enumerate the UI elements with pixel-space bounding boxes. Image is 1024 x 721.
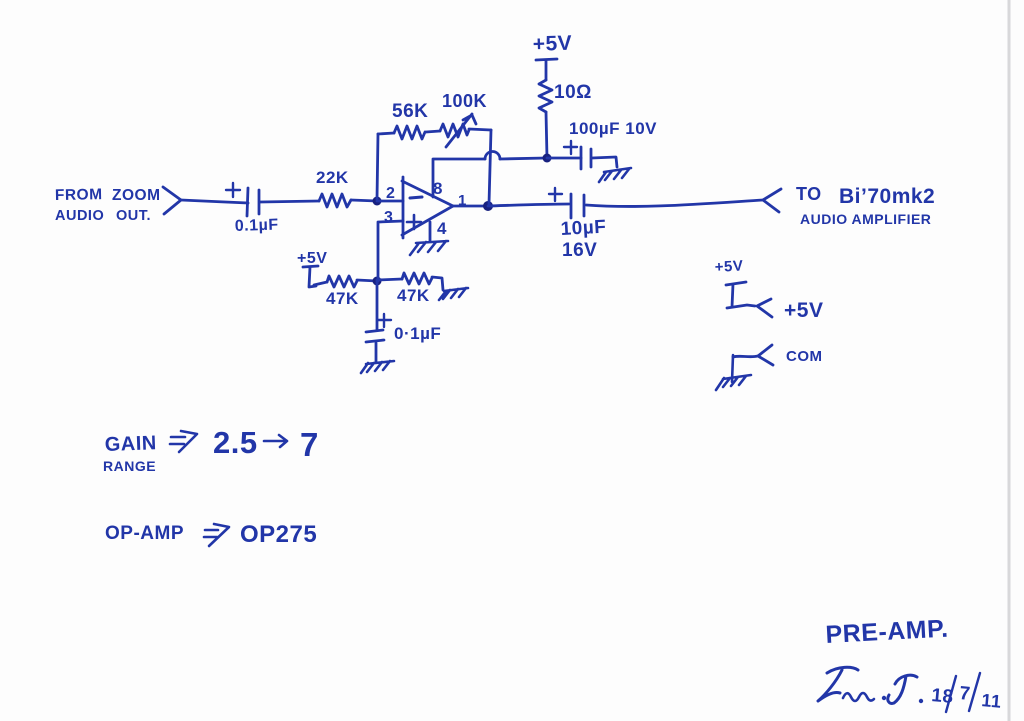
node OUT label "TO Bi70mk2 AUDIO AMPLIFIER" xyxy=(796,184,935,227)
svg-text:2: 2 xyxy=(386,185,395,202)
svg-text:Bi’70mk2: Bi’70mk2 xyxy=(839,185,935,208)
svg-text:0.1µF: 0.1µF xyxy=(235,216,279,235)
COM header chevron xyxy=(758,345,773,365)
value label 0.1uF (C1) xyxy=(235,216,279,235)
capacitor C4 polarity plus xyxy=(378,314,391,327)
svg-text:2.5: 2.5 xyxy=(213,425,258,460)
wire R1 to node A xyxy=(351,200,377,201)
resistor R3 56K xyxy=(394,126,425,139)
value label 47K (R5) xyxy=(397,286,430,305)
value label 47K (R4) xyxy=(326,289,359,308)
op-amp U1 triangle xyxy=(402,177,453,238)
input connector J1 chevron xyxy=(163,187,181,214)
wire node D to R5 xyxy=(377,279,402,280)
svg-text:OP275: OP275 xyxy=(240,521,317,548)
node C junction xyxy=(543,154,552,163)
wire pin 8 to +5V rail xyxy=(433,159,485,197)
pin number 1 xyxy=(458,192,467,209)
date slashes xyxy=(946,673,980,712)
net label +5V (bias) xyxy=(297,250,327,267)
wire feedback top left xyxy=(378,133,394,134)
title PRE-AMP xyxy=(825,615,949,649)
ground G2 (C2) xyxy=(599,168,631,182)
svg-text:TO: TO xyxy=(796,184,822,204)
svg-text:4: 4 xyxy=(437,219,447,238)
signature dot 2 xyxy=(919,699,923,703)
potentiometer VR1 100K body xyxy=(440,124,469,137)
value label 0.1uF (C4) xyxy=(394,324,441,343)
wire pin 4 to ground xyxy=(429,222,432,241)
wire input to C1 xyxy=(181,200,248,203)
resistor R1 22K xyxy=(319,194,351,207)
svg-text:OUT.: OUT. xyxy=(116,208,151,224)
resistor R2 10R xyxy=(539,80,552,112)
value label 10 ohm (R2) xyxy=(554,82,592,103)
capacitor C2 plates xyxy=(581,147,591,169)
wire hop to node C xyxy=(500,158,546,159)
implies arrow (gain) xyxy=(170,431,197,452)
+5V bias terminal bar xyxy=(303,266,318,287)
svg-text:PRE-AMP.: PRE-AMP. xyxy=(825,615,949,649)
capacitor C2 polarity plus xyxy=(564,141,577,154)
+5V header chevron xyxy=(757,299,772,317)
svg-text:0·1µF: 0·1µF xyxy=(394,324,441,343)
wire node A to pin 2 xyxy=(377,200,403,203)
signature J xyxy=(888,675,917,703)
signature flourish I xyxy=(827,667,858,673)
value label 100K (VR1) xyxy=(442,91,487,111)
wire R4 to node D xyxy=(357,280,377,281)
svg-text:+5V: +5V xyxy=(532,32,572,56)
svg-text:3: 3 xyxy=(384,209,393,226)
svg-text:+5V: +5V xyxy=(297,250,327,267)
pin number 3 xyxy=(384,209,393,226)
svg-text:47K: 47K xyxy=(397,286,430,305)
capacitor C3 plates xyxy=(571,194,584,218)
node IN label "FROM ZOOM AUDIO OUT." xyxy=(55,186,161,224)
svg-text:56K: 56K xyxy=(392,101,428,122)
+5V header terminal bar xyxy=(726,282,755,308)
wire node B to C3 xyxy=(488,204,569,206)
wire R5 to ground xyxy=(432,277,443,290)
note text GAIN RANGE xyxy=(103,425,319,474)
date 18/7/11 xyxy=(931,683,1003,712)
svg-text:7: 7 xyxy=(959,683,972,705)
wire feedback down to node B xyxy=(489,130,491,204)
svg-text:47K: 47K xyxy=(326,289,359,308)
svg-text:ZOOM: ZOOM xyxy=(112,187,161,204)
svg-text:100µF 10V: 100µF 10V xyxy=(569,119,657,138)
svg-text:AUDIO AMPLIFIER: AUDIO AMPLIFIER xyxy=(800,211,931,227)
svg-text:COM: COM xyxy=(786,348,823,365)
implies arrow (op-amp) xyxy=(204,524,229,546)
pin number 4 xyxy=(437,219,447,238)
svg-text:10µF: 10µF xyxy=(560,217,607,240)
svg-text:22K: 22K xyxy=(316,168,349,187)
wire R2 to node C xyxy=(546,112,547,158)
value label 10uF (C3) xyxy=(560,217,607,240)
wire hop over feedback xyxy=(485,152,500,160)
svg-text:+5V: +5V xyxy=(714,258,743,276)
svg-text:10Ω: 10Ω xyxy=(554,82,592,103)
net label COM xyxy=(786,348,823,365)
ground G4 (C4) xyxy=(361,361,394,373)
op-amp U1 inverting input minus xyxy=(410,197,422,198)
ground G3 (R5) xyxy=(439,288,468,300)
net label +5V (header) xyxy=(784,299,823,322)
wire C2 to ground xyxy=(592,157,617,167)
wire node A up to feedback xyxy=(377,134,378,199)
net label +5V (rail) xyxy=(532,32,572,56)
value label 56K (R3) xyxy=(392,101,428,122)
wire VR1 to feedback corner xyxy=(469,129,491,130)
resistor R4 47K xyxy=(327,276,357,287)
wire bias terminal to R4 xyxy=(314,282,327,285)
node D junction xyxy=(373,277,382,286)
+5V rail terminal bar xyxy=(536,59,557,80)
output connector J2 chevron xyxy=(763,189,781,212)
capacitor C1 plates xyxy=(247,188,259,216)
svg-text:AUDIO: AUDIO xyxy=(55,208,104,224)
value label 16V (C3) xyxy=(562,240,597,261)
wire pin 3 down to node D xyxy=(378,221,403,281)
pin number 8 xyxy=(433,179,443,198)
value label 22K (R1) xyxy=(316,168,349,187)
svg-text:GAIN: GAIN xyxy=(104,432,157,456)
wire node D down to C4 xyxy=(376,281,379,330)
svg-text:+5V: +5V xyxy=(784,299,823,322)
capacitor C4 plates xyxy=(366,330,384,342)
svg-text:8: 8 xyxy=(433,179,443,198)
capacitor C3 polarity plus xyxy=(549,188,562,201)
node A junction xyxy=(373,197,382,206)
pin number 2 xyxy=(386,185,395,202)
wire R3 to VR1 xyxy=(426,131,440,132)
value label 100uF 10V (C2) xyxy=(569,119,657,138)
potentiometer VR1 wiper arrow xyxy=(446,114,476,147)
svg-text:FROM: FROM xyxy=(55,186,103,204)
wire pin 1 to node B xyxy=(453,205,488,208)
svg-text:7: 7 xyxy=(300,426,319,463)
wire C4 to ground xyxy=(375,343,378,362)
net label +5V (header small) xyxy=(714,258,743,276)
signature an wave xyxy=(843,693,874,701)
signature dot xyxy=(882,696,886,700)
svg-text:16V: 16V xyxy=(562,240,597,261)
svg-text:11: 11 xyxy=(981,690,1003,712)
wire COM chevron to ground xyxy=(733,356,758,357)
wire C3 to output connector xyxy=(586,200,763,206)
ground G1 (op-amp pin 4) xyxy=(410,241,448,255)
capacitor C1 polarity plus xyxy=(226,183,240,197)
ground G5 (COM) xyxy=(716,355,751,390)
node B junction xyxy=(483,201,493,211)
svg-text:RANGE: RANGE xyxy=(103,458,156,474)
wire C1 to R1 xyxy=(260,201,319,202)
paper edge shading xyxy=(1008,0,1011,721)
wire node C to C2 xyxy=(547,157,581,160)
resistor R5 47K xyxy=(402,273,432,284)
range arrow 2.5 to 7 xyxy=(264,435,287,447)
svg-text:100K: 100K xyxy=(442,91,487,111)
op-amp U1 non-inverting input plus xyxy=(407,215,421,229)
svg-text:OP-AMP: OP-AMP xyxy=(105,523,184,544)
note text OP-AMP OP275 xyxy=(105,521,317,548)
